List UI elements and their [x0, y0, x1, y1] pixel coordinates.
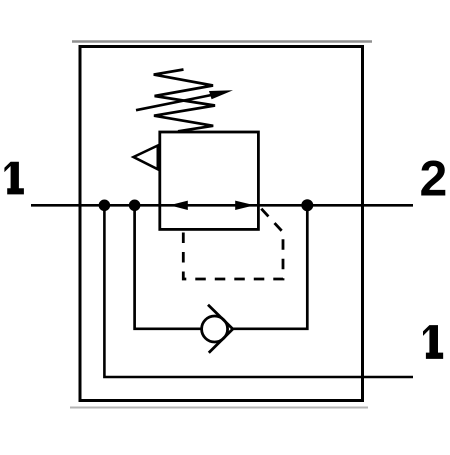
wire: branch down from junction C to check valve line right side: [232, 205, 308, 328]
wire: branch down from junction B to check valve line: [135, 205, 202, 328]
grey separator line top: [72, 40, 372, 43]
flow arrowhead left: [170, 201, 188, 210]
check valve circle: [202, 316, 228, 342]
junction B: [129, 200, 141, 212]
spring (adjustable): [154, 70, 215, 132]
relief triangle: [134, 146, 158, 170]
adjustment arrow shaft: [136, 95, 214, 111]
flow arrowhead right: [235, 201, 254, 210]
regulator body box: [160, 132, 259, 229]
pilot line (dashed): [183, 209, 283, 279]
wire: main flow line port 1 to port 2: [31, 204, 413, 207]
svg-text:2: 2: [420, 150, 448, 206]
check valve seat chevron: [208, 305, 233, 353]
junction C: [301, 199, 313, 211]
grey separator line bottom: [70, 407, 368, 409]
port label 1 (bottom right): [423, 325, 443, 359]
junction A: [99, 200, 111, 212]
enclosure frame: [80, 47, 363, 401]
wire: branch down from junction A to bottom output line: [104, 205, 413, 377]
adjustment arrowhead: [209, 90, 233, 99]
port label 1 (left): [4, 162, 24, 195]
